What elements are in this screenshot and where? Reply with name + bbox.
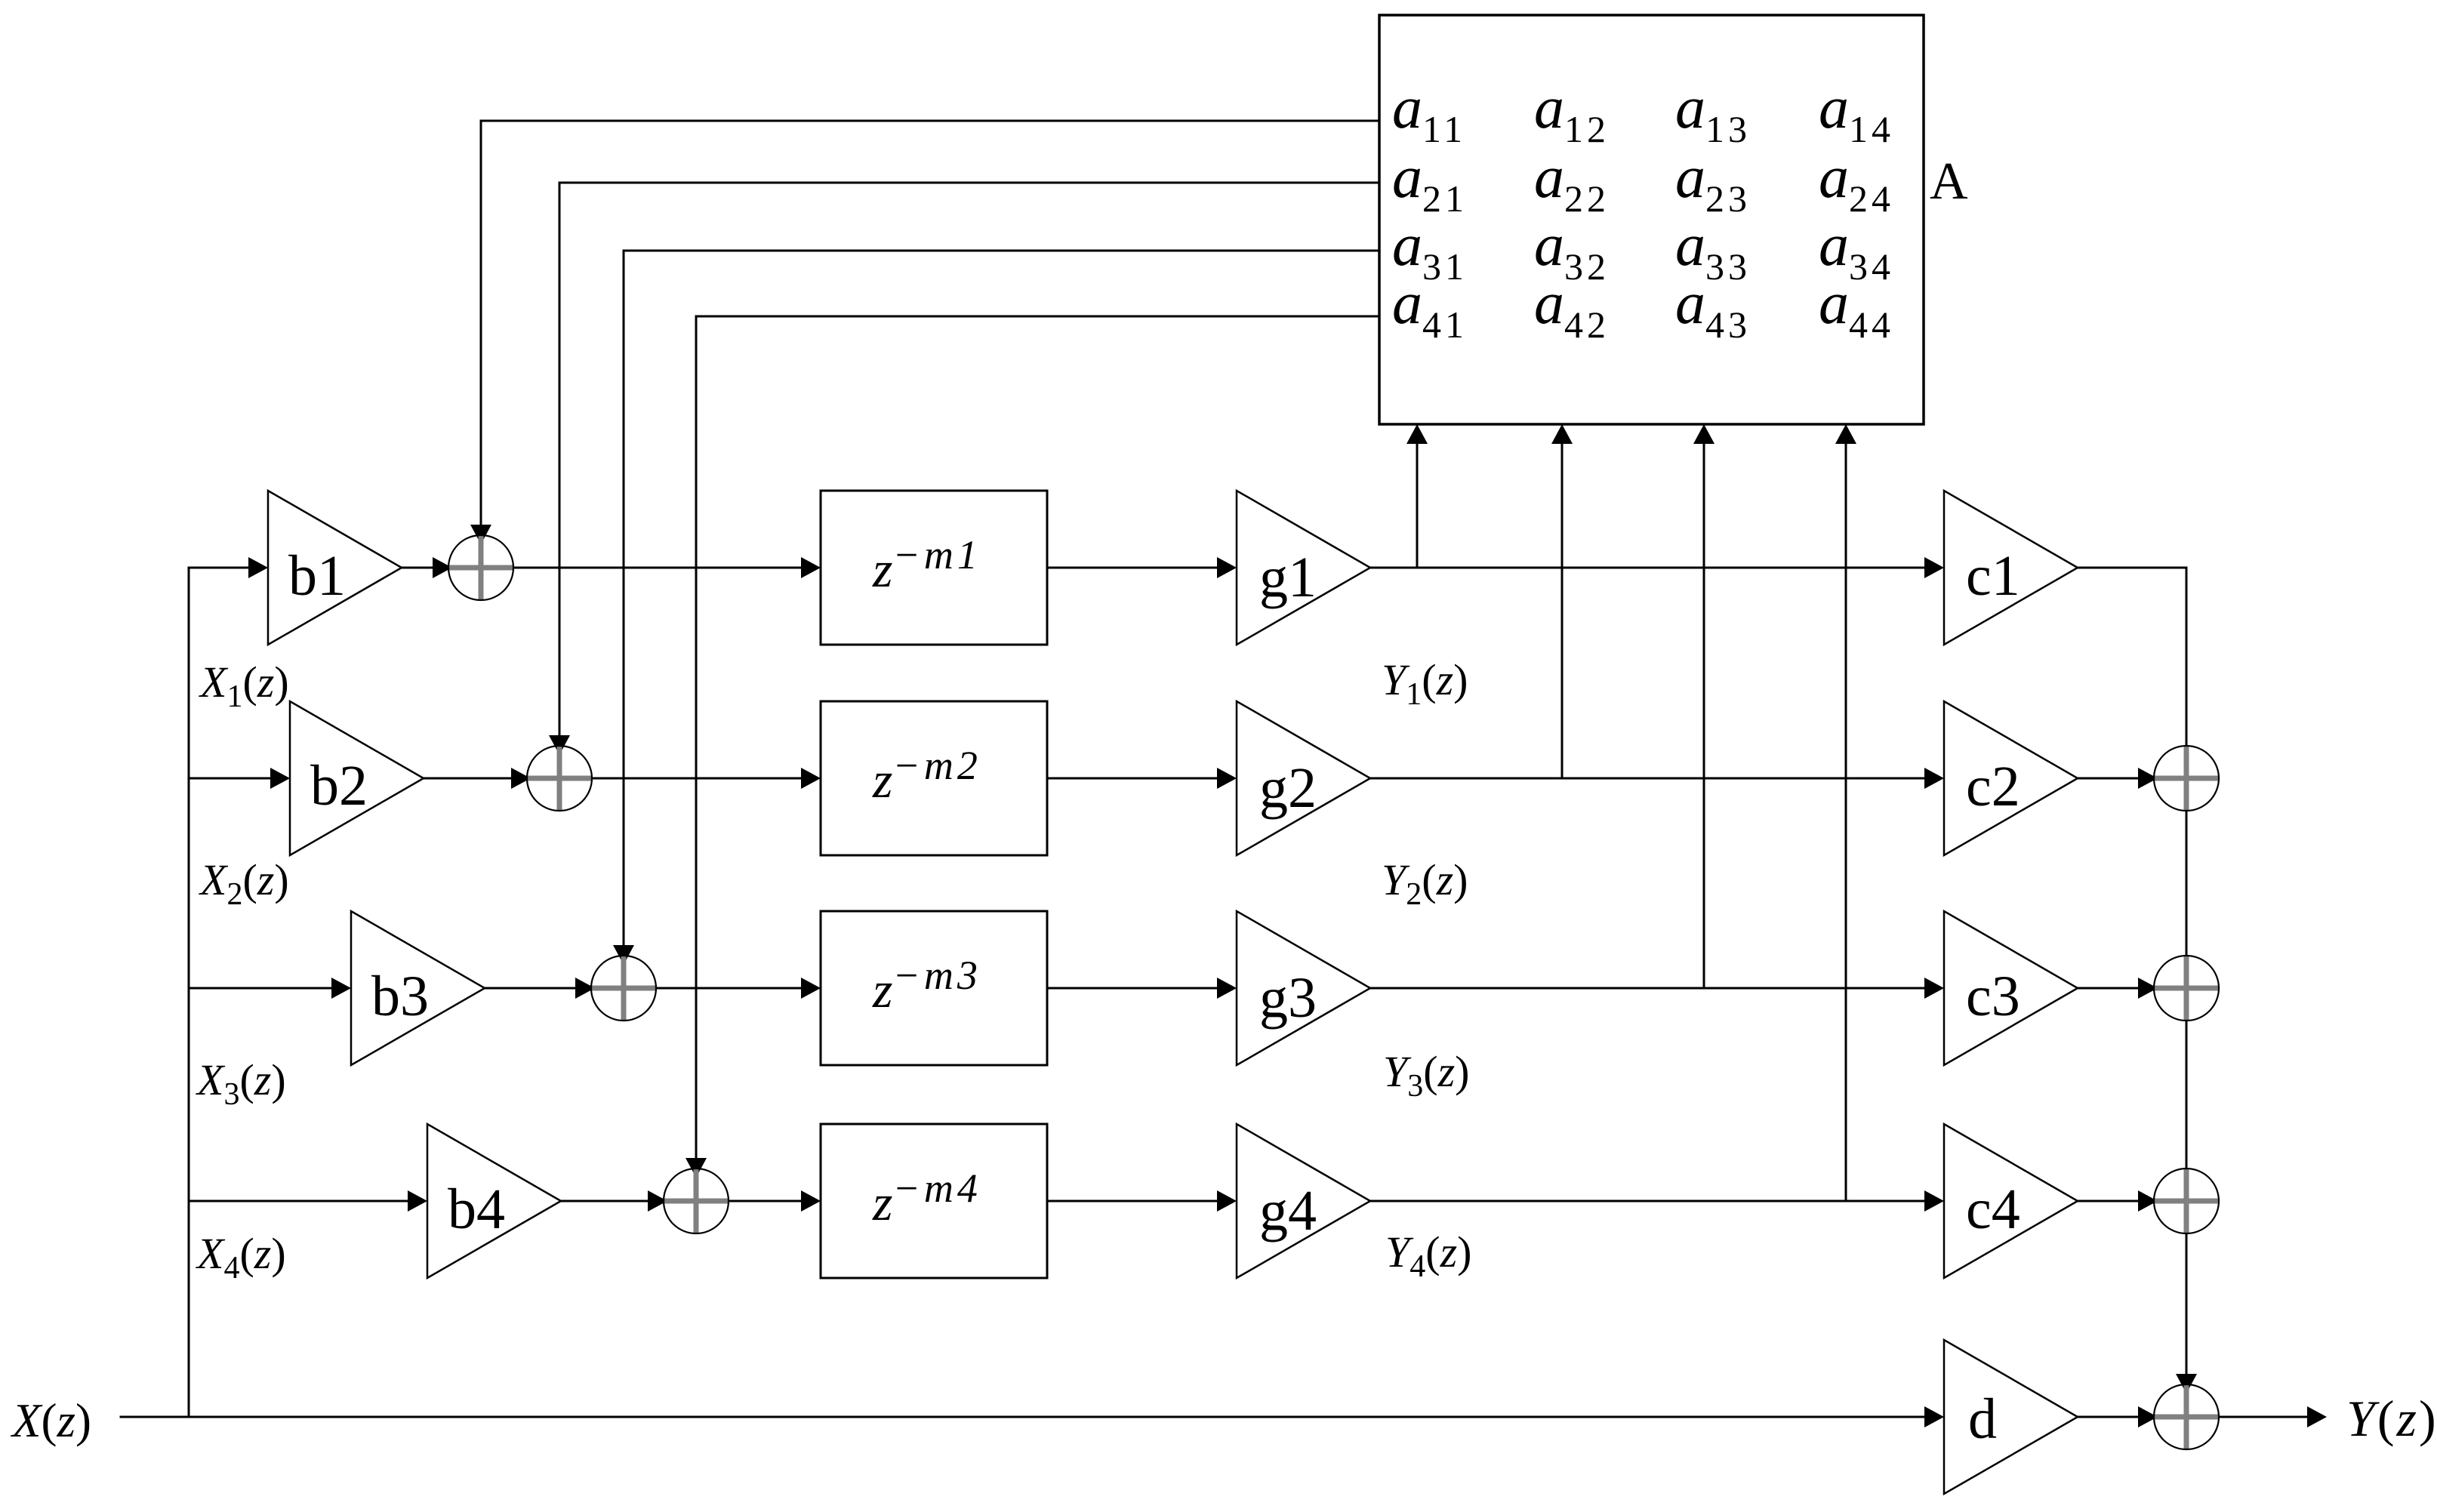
svg-text:c4: c4 xyxy=(1966,1178,2020,1241)
svg-text:g4: g4 xyxy=(1259,1179,1317,1243)
svg-text:Y2(z): Y2(z) xyxy=(1382,855,1468,912)
svg-text:g3: g3 xyxy=(1259,966,1317,1030)
svg-text:b4: b4 xyxy=(448,1178,505,1241)
svg-text:X(z): X(z) xyxy=(10,1394,91,1447)
svg-text:d: d xyxy=(1968,1387,1997,1451)
svg-text:Y(z): Y(z) xyxy=(2346,1390,2437,1447)
svg-text:X4(z): X4(z) xyxy=(196,1229,286,1286)
svg-text:b1: b1 xyxy=(288,544,346,608)
svg-text:g2: g2 xyxy=(1259,756,1317,820)
svg-text:X3(z): X3(z) xyxy=(196,1055,286,1112)
svg-text:Y4(z): Y4(z) xyxy=(1385,1227,1472,1284)
svg-text:g1: g1 xyxy=(1259,546,1317,609)
svg-text:b2: b2 xyxy=(310,754,368,818)
svg-text:A: A xyxy=(1930,152,1968,211)
svg-text:X2(z): X2(z) xyxy=(199,855,289,912)
svg-text:X1(z): X1(z) xyxy=(199,657,289,714)
svg-text:Y3(z): Y3(z) xyxy=(1383,1047,1470,1104)
svg-text:c2: c2 xyxy=(1966,755,2020,818)
svg-text:Y1(z): Y1(z) xyxy=(1382,655,1468,712)
svg-text:c1: c1 xyxy=(1966,544,2020,608)
svg-text:c3: c3 xyxy=(1966,965,2020,1028)
svg-text:b3: b3 xyxy=(371,965,429,1028)
